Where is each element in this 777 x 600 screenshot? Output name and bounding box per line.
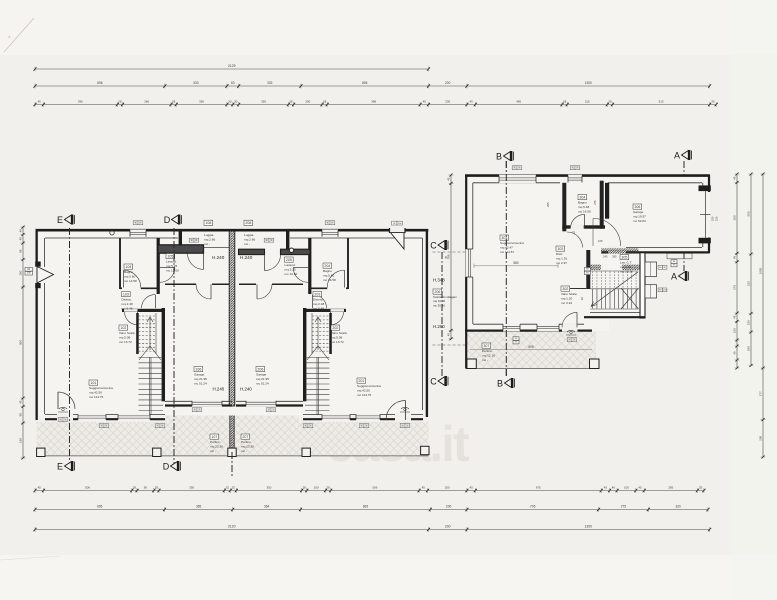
svg-text:28: 28	[326, 486, 330, 490]
svg-text:40: 40	[612, 486, 616, 490]
svg-text:105: 105	[598, 239, 603, 243]
svg-text:203: 203	[314, 292, 320, 296]
svg-text:45: 45	[732, 315, 736, 319]
svg-text:mc -: mc -	[482, 358, 488, 362]
svg-text:Tettoia di collegam: Tettoia di collegam	[433, 295, 458, 299]
svg-text:275: 275	[732, 285, 736, 290]
svg-text:E: E	[57, 215, 63, 225]
svg-text:Disimp.: Disimp.	[122, 297, 132, 301]
svg-text:Garage: Garage	[194, 372, 205, 376]
svg-text:mq 3.54: mq 3.54	[620, 265, 631, 269]
svg-text:100: 100	[624, 486, 629, 490]
svg-text:204: 204	[324, 264, 330, 268]
svg-text:45: 45	[38, 100, 42, 104]
svg-text:696: 696	[362, 81, 368, 85]
svg-text:mc -: mc -	[210, 449, 216, 453]
svg-text:102: 102	[120, 326, 126, 330]
svg-text:Portico: Portico	[482, 349, 492, 353]
svg-text:45: 45	[638, 486, 642, 490]
svg-text:mc 51.24: mc 51.24	[194, 382, 207, 386]
svg-text:506: 506	[372, 486, 377, 490]
svg-text:28: 28	[118, 100, 122, 104]
svg-text:45: 45	[604, 486, 608, 490]
svg-text:350: 350	[199, 100, 204, 104]
svg-text:201: 201	[358, 379, 364, 383]
svg-text:206: 206	[434, 290, 440, 294]
svg-text:380: 380	[732, 215, 736, 220]
svg-text:205: 205	[286, 258, 292, 262]
svg-text:35: 35	[699, 486, 703, 490]
svg-text:Loggia: Loggia	[244, 233, 254, 237]
svg-text:Soggiorno/cucina: Soggiorno/cucina	[500, 241, 524, 245]
svg-text:mc 30.40: mc 30.40	[433, 304, 445, 308]
svg-text:35: 35	[711, 100, 715, 104]
svg-text:101: 101	[90, 381, 96, 385]
svg-text:B: B	[497, 378, 503, 388]
svg-text:Bagno: Bagno	[124, 270, 133, 274]
svg-text:mc 6.48: mc 6.48	[313, 307, 324, 311]
svg-text:220: 220	[715, 216, 719, 221]
svg-text:mc -: mc -	[204, 242, 210, 246]
svg-text:mq 23.30: mq 23.30	[241, 444, 254, 448]
svg-text:364: 364	[264, 505, 270, 509]
svg-text:200: 200	[27, 272, 32, 275]
svg-text:mc 12.60: mc 12.60	[166, 269, 179, 273]
svg-text:Bagno: Bagno	[578, 200, 587, 204]
svg-text:A: A	[674, 150, 680, 160]
svg-text:396: 396	[78, 100, 83, 104]
svg-text:45: 45	[732, 256, 736, 260]
svg-text:mq 2.66: mq 2.66	[244, 238, 255, 242]
svg-text:D: D	[164, 215, 171, 225]
svg-text:mq 2.48: mq 2.48	[313, 302, 324, 306]
svg-text:mq 5.60: mq 5.60	[124, 274, 135, 278]
svg-text:396: 396	[371, 100, 376, 104]
svg-text:H.240: H.240	[212, 255, 225, 260]
svg-text:Portico: Portico	[241, 440, 251, 444]
svg-text:2129: 2129	[228, 64, 236, 68]
svg-text:333: 333	[267, 81, 273, 85]
svg-text:45: 45	[422, 486, 426, 490]
svg-text:580: 580	[513, 261, 519, 265]
svg-text:C: C	[430, 240, 437, 250]
svg-text:mc 13.72: mc 13.72	[119, 340, 132, 344]
svg-text:285: 285	[668, 486, 673, 490]
svg-text:Lav.-C.T.: Lav.-C.T.	[620, 260, 632, 264]
svg-text:H.240: H.240	[240, 387, 252, 392]
svg-text:206: 206	[257, 367, 263, 371]
svg-text:200: 200	[445, 100, 450, 104]
svg-text:88: 88	[18, 413, 22, 417]
svg-text:Vano Scala: Vano Scala	[119, 331, 135, 335]
svg-text:75: 75	[572, 231, 575, 235]
svg-text:696: 696	[97, 81, 103, 85]
svg-text:30: 30	[228, 100, 232, 104]
svg-text:45: 45	[444, 255, 448, 259]
svg-text:45: 45	[18, 237, 22, 241]
svg-text:100: 100	[732, 328, 736, 333]
svg-text:mq 5.25: mq 5.25	[285, 267, 296, 271]
svg-text:mq 5.08: mq 5.08	[119, 335, 130, 339]
svg-text:E: E	[57, 461, 63, 471]
svg-text:208: 208	[245, 221, 251, 225]
svg-text:Portico: Portico	[210, 440, 220, 444]
svg-text:105: 105	[167, 254, 173, 258]
svg-text:100: 100	[746, 320, 750, 325]
svg-text:265: 265	[546, 202, 550, 207]
svg-text:Vano Scala: Vano Scala	[331, 331, 347, 335]
svg-text:320: 320	[746, 281, 750, 286]
svg-text:Vane Scala: Vane Scala	[561, 292, 577, 296]
svg-text:28: 28	[155, 486, 159, 490]
svg-text:mq 2.48: mq 2.48	[122, 302, 133, 306]
svg-text:45: 45	[732, 351, 736, 355]
svg-text:mq 19.57: mq 19.57	[633, 214, 646, 218]
svg-text:mq 21.95: mq 21.95	[256, 377, 269, 381]
svg-text:650: 650	[746, 211, 750, 216]
svg-text:mc 12.60: mc 12.60	[285, 272, 298, 276]
svg-text:333: 333	[193, 81, 199, 85]
svg-text:108: 108	[205, 221, 211, 225]
svg-text:mc 114.67: mc 114.67	[500, 250, 514, 254]
svg-text:mq 1.91: mq 1.91	[556, 256, 567, 260]
svg-text:mc 2.97: mc 2.97	[556, 261, 567, 265]
svg-text:695: 695	[97, 505, 103, 509]
svg-text:45: 45	[423, 100, 427, 104]
svg-text:350: 350	[267, 486, 272, 490]
svg-text:Loggia: Loggia	[204, 233, 214, 237]
svg-text:Lavand.: Lavand.	[166, 259, 177, 263]
svg-text:506: 506	[85, 486, 90, 490]
svg-text:32: 32	[226, 486, 230, 490]
svg-text:28: 28	[323, 100, 327, 104]
svg-text:mq 42.50: mq 42.50	[89, 390, 102, 394]
svg-text:28: 28	[133, 486, 137, 490]
svg-text:mq 2.66: mq 2.66	[204, 238, 215, 242]
svg-text:375: 375	[593, 200, 597, 205]
svg-text:200: 200	[305, 100, 310, 104]
svg-text:285: 285	[612, 255, 617, 259]
svg-text:Lavand.: Lavand.	[285, 263, 296, 267]
svg-text:Garage: Garage	[256, 372, 267, 376]
svg-text:40: 40	[18, 229, 22, 233]
svg-text:45: 45	[38, 486, 42, 490]
svg-text:705: 705	[530, 505, 536, 509]
svg-text:215: 215	[585, 100, 590, 104]
svg-text:600: 600	[18, 340, 22, 345]
svg-text:mc 52.84: mc 52.84	[633, 219, 646, 223]
svg-text:103: 103	[123, 292, 129, 296]
svg-text:mq 5.25: mq 5.25	[166, 264, 177, 268]
svg-text:Garage: Garage	[633, 210, 644, 214]
svg-text:307: 307	[483, 344, 489, 348]
svg-text:200: 200	[445, 81, 451, 85]
svg-text:180: 180	[746, 346, 750, 351]
svg-text:28: 28	[608, 100, 612, 104]
svg-text:2120: 2120	[228, 525, 236, 529]
svg-text:515: 515	[659, 100, 664, 104]
svg-text:mq 1.20: mq 1.20	[561, 296, 572, 300]
svg-text:350: 350	[261, 100, 266, 104]
svg-text:mc 16.90: mc 16.90	[578, 210, 591, 214]
svg-text:45: 45	[469, 100, 473, 104]
svg-text:mc 114.75: mc 114.75	[89, 395, 103, 399]
svg-text:302: 302	[562, 287, 568, 291]
svg-text:320: 320	[675, 505, 681, 509]
svg-text:mq 23.30: mq 23.30	[210, 444, 223, 448]
svg-text:mc 14.58: mc 14.58	[124, 279, 137, 283]
svg-text:32: 32	[232, 486, 236, 490]
svg-text:28: 28	[563, 100, 567, 104]
svg-text:202: 202	[332, 326, 338, 330]
svg-text:100: 100	[314, 486, 319, 490]
svg-text:B: B	[496, 151, 502, 161]
svg-text:Soggiorno/cucina: Soggiorno/cucina	[89, 386, 113, 390]
svg-text:28: 28	[172, 100, 176, 104]
svg-text:mq 21.95: mq 21.95	[194, 377, 207, 381]
svg-text:mq 12.16: mq 12.16	[482, 353, 495, 357]
svg-text:Distr.: Distr.	[556, 252, 563, 256]
svg-text:45: 45	[446, 177, 450, 181]
svg-text:675: 675	[536, 486, 541, 490]
svg-text:30: 30	[234, 100, 238, 104]
svg-text:Bagno: Bagno	[323, 269, 332, 273]
svg-text:mc 20.36: mc 20.36	[620, 270, 633, 274]
svg-text:H.348: H.348	[433, 278, 445, 283]
svg-text:1050: 1050	[758, 267, 762, 274]
svg-text:277: 277	[758, 391, 762, 396]
svg-text:200: 200	[445, 525, 451, 529]
svg-text:305: 305	[621, 255, 627, 259]
svg-text:207: 207	[242, 435, 248, 439]
svg-text:H.240: H.240	[240, 255, 253, 260]
svg-text:mc 14.58: mc 14.58	[323, 278, 336, 282]
svg-text:D: D	[163, 461, 170, 471]
svg-text:465: 465	[516, 100, 521, 104]
svg-text:Soggiorno/cucina: Soggiorno/cucina	[357, 384, 381, 388]
svg-text:1300: 1300	[584, 525, 592, 529]
svg-text:Disimp.: Disimp.	[313, 297, 323, 301]
svg-text:45: 45	[446, 333, 450, 337]
svg-text:mc 51.24: mc 51.24	[256, 382, 269, 386]
svg-text:107: 107	[211, 435, 217, 439]
svg-text:H.260: H.260	[433, 324, 445, 329]
svg-text:104: 104	[125, 265, 131, 269]
svg-text:45: 45	[469, 486, 473, 490]
svg-text:106: 106	[195, 367, 201, 371]
svg-text:200: 200	[758, 435, 762, 440]
svg-text:mq 5.60: mq 5.60	[323, 273, 334, 277]
svg-text:mq 10.00: mq 10.00	[433, 299, 445, 303]
svg-text:303: 303	[557, 247, 563, 251]
svg-text:mc -: mc -	[244, 242, 250, 246]
svg-text:88: 88	[18, 249, 22, 253]
svg-text:mc 13.72: mc 13.72	[331, 340, 344, 344]
svg-text:304: 304	[579, 195, 585, 199]
svg-text:A: A	[671, 271, 677, 281]
svg-text:63: 63	[231, 81, 235, 85]
svg-text:250: 250	[711, 216, 715, 221]
svg-text:28: 28	[303, 486, 307, 490]
svg-text:mc 3.24: mc 3.24	[561, 301, 572, 305]
svg-text:mq 5.48: mq 5.48	[578, 205, 589, 209]
svg-text:350: 350	[189, 486, 194, 490]
svg-text:28: 28	[289, 100, 293, 104]
svg-text:mc 6.48: mc 6.48	[122, 307, 133, 311]
svg-text:306: 306	[634, 205, 640, 209]
svg-text:275: 275	[621, 505, 627, 509]
svg-text:C: C	[430, 376, 437, 386]
svg-text:H.240: H.240	[213, 387, 225, 392]
svg-text:365: 365	[196, 505, 202, 509]
svg-text:mc -: mc -	[241, 449, 247, 453]
svg-text:mc 114.75: mc 114.75	[357, 393, 371, 397]
svg-text:45: 45	[18, 400, 22, 404]
svg-text:690: 690	[528, 345, 534, 349]
svg-text:200: 200	[446, 505, 452, 509]
svg-text:150: 150	[18, 270, 22, 275]
svg-text:1300: 1300	[585, 81, 592, 85]
svg-text:45: 45	[732, 176, 736, 180]
svg-text:mq 5.08: mq 5.08	[331, 335, 342, 339]
svg-text:190: 190	[18, 438, 22, 443]
svg-text:90: 90	[144, 486, 148, 490]
svg-text:4,: 4,	[8, 34, 11, 39]
svg-text:200: 200	[445, 486, 450, 490]
svg-text:695: 695	[363, 505, 369, 509]
svg-text:260: 260	[144, 100, 149, 104]
svg-text:245: 245	[603, 255, 608, 259]
svg-text:mq 42.50: mq 42.50	[357, 388, 370, 392]
